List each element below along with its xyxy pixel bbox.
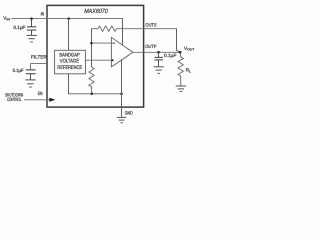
wire VIN to IN pin (row into box) bbox=[11, 18, 123, 20]
svg-text:0.1µF: 0.1µF bbox=[164, 53, 177, 58]
ground (GND pin) bbox=[117, 117, 126, 122]
svg-text:RL: RL bbox=[186, 68, 191, 74]
svg-text:EN: EN bbox=[38, 91, 43, 96]
wire IN to bandgap (vertical drop) bbox=[68, 19, 70, 51]
IC outline U1 MAX6070 bbox=[47, 5, 144, 107]
capacitor C3 bbox=[155, 52, 163, 66]
svg-text:REFERENCE: REFERENCE bbox=[57, 65, 82, 71]
minus mark at op-amp input bbox=[112, 42, 115, 44]
bandgap block bbox=[55, 50, 86, 74]
svg-text:FILTER: FILTER bbox=[31, 54, 47, 59]
svg-text:VOLTAGE: VOLTAGE bbox=[60, 59, 80, 65]
junction dot C3 tap bbox=[157, 51, 160, 54]
svg-text:VOUT: VOUT bbox=[184, 46, 194, 52]
capacitor C2 bbox=[26, 70, 36, 80]
svg-text:OUTF: OUTF bbox=[145, 44, 156, 49]
svg-text:0.1µF: 0.1µF bbox=[13, 25, 25, 30]
wire bandgap output to op-amp + input bbox=[85, 59, 111, 61]
junction dot rail/GND bbox=[120, 93, 123, 96]
wire OUTS to VOUT node bbox=[177, 29, 181, 53]
svg-text:0.1µF: 0.1µF bbox=[13, 68, 24, 73]
ground rail wire bbox=[68, 93, 122, 95]
wire feedback node to op-amp - input bbox=[92, 42, 112, 44]
resistor RL (load, vertical) bbox=[178, 52, 183, 86]
junction dot at C1 tap bbox=[30, 17, 33, 20]
resistor R2 (divider lower, vertical) bbox=[89, 67, 94, 94]
svg-text:GND: GND bbox=[125, 110, 133, 115]
arrowhead on EN wire bbox=[49, 98, 55, 102]
wire op-amp output to OUTF and VOUT bbox=[133, 51, 180, 53]
wire FILTER pin to C2 bbox=[31, 64, 48, 70]
wire EN input bbox=[24, 99, 50, 101]
feedback node vertical wire bbox=[91, 29, 93, 67]
node VOUT dot bbox=[179, 51, 182, 54]
wire bandgap to ground rail bbox=[68, 74, 70, 94]
svg-text:BANDGAP: BANDGAP bbox=[59, 52, 80, 58]
resistor R1 (feedback, horizontal) bbox=[98, 26, 117, 31]
wire op-amp ground to rail and GND pin bbox=[121, 59, 123, 117]
svg-text:MAX6070: MAX6070 bbox=[84, 8, 108, 15]
op-amp U2 bbox=[111, 37, 132, 67]
ground (below RL) bbox=[176, 86, 186, 92]
junction dot feedback node bbox=[90, 42, 93, 45]
svg-text:VIN: VIN bbox=[3, 16, 10, 22]
svg-text:IN: IN bbox=[41, 12, 45, 17]
junction dot at bandgap feed bbox=[67, 17, 70, 20]
svg-text:CONTROL: CONTROL bbox=[7, 97, 22, 102]
arrowhead at op-amp + input bbox=[111, 59, 114, 62]
svg-text:OUTS: OUTS bbox=[146, 23, 157, 28]
ground (below C1) bbox=[27, 35, 37, 42]
ground (below C2) bbox=[25, 80, 35, 87]
ground (below C3) bbox=[154, 67, 164, 74]
wire IN row to op-amp supply bbox=[122, 19, 124, 46]
junction dot rail/R2 bbox=[91, 93, 94, 96]
wire R1 to OUTS pin row bbox=[117, 28, 178, 30]
wire feedback node to R1 bbox=[91, 28, 98, 30]
capacitor C1 bbox=[27, 19, 36, 36]
